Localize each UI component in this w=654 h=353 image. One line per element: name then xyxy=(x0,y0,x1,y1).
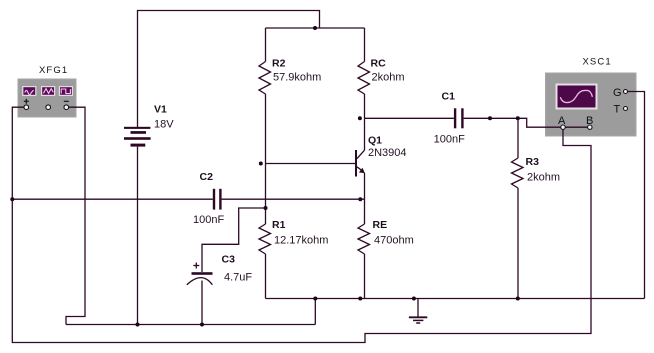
svg-text:B: B xyxy=(586,115,593,127)
node junction dot R3 bottom xyxy=(516,297,520,301)
terminal XFG1 minus xyxy=(64,105,69,110)
svg-text:RE: RE xyxy=(373,219,388,231)
wire scope G to ground bus xyxy=(628,92,645,299)
wire input node to C2 xyxy=(12,198,213,200)
svg-text:57.9kohm: 57.9kohm xyxy=(273,72,321,84)
capacitor C3 polarized xyxy=(187,263,213,285)
wire RC bottom to collector xyxy=(364,94,366,150)
wire C1 to scope A xyxy=(464,118,590,127)
resistor RC xyxy=(358,28,370,94)
terminal XFG1 plus xyxy=(24,105,29,110)
svg-text:A: A xyxy=(558,115,566,127)
svg-text:2kohm: 2kohm xyxy=(372,72,405,84)
svg-text:4.7uF: 4.7uF xyxy=(224,272,252,284)
battery V1 xyxy=(124,127,151,147)
wire jog bus to 0-volt rail xyxy=(314,299,316,325)
wire ground bus y=298.5 xyxy=(266,298,645,300)
wire 0-volt rail y=324.5 xyxy=(66,324,315,326)
resistor R2 xyxy=(259,28,271,94)
resistor RE xyxy=(358,224,370,299)
svg-text:XSC1: XSC1 xyxy=(583,57,612,68)
svg-text:100nF: 100nF xyxy=(193,214,224,226)
svg-text:C3: C3 xyxy=(222,254,236,266)
svg-text:R2: R2 xyxy=(272,58,286,70)
terminal XSC1 A xyxy=(561,125,565,129)
node emitter junction dot xyxy=(358,197,362,201)
wire XFG1 plus to input node xyxy=(12,107,24,199)
node input junction dot xyxy=(10,197,14,201)
wire +rail y=28 R2 to RC xyxy=(266,27,365,29)
wire V1 top to +rail corner xyxy=(138,11,320,128)
svg-text:18V: 18V xyxy=(154,119,174,131)
wire XFG1 minus to 0-volt rail xyxy=(66,107,85,324)
svg-text:2N3904: 2N3904 xyxy=(368,147,407,159)
wire C2 to emitter xyxy=(222,198,365,200)
wire input node to scope B xyxy=(12,129,591,343)
wire V1 bottom xyxy=(137,147,139,325)
terminal XSC1 G xyxy=(624,90,628,94)
wire R2 bottom down to R1 xyxy=(265,94,267,224)
terminal XSC1 B xyxy=(588,125,592,129)
node junction dot ground stem xyxy=(412,297,416,301)
wire collector to C1 xyxy=(365,117,454,119)
capacitor C2 xyxy=(213,189,222,210)
svg-text:2kohm: 2kohm xyxy=(527,172,560,184)
wire base node to C3 xyxy=(202,208,266,272)
svg-text:V1: V1 xyxy=(154,104,167,116)
transistor Q1 xyxy=(355,150,365,177)
node junction dot on +rail xyxy=(313,26,317,30)
svg-text:470ohm: 470ohm xyxy=(374,235,414,247)
instrument XSC1 oscilloscope body xyxy=(546,73,637,136)
node collector junction dot xyxy=(358,116,362,120)
resistor R3 xyxy=(512,118,524,298)
svg-text:C2: C2 xyxy=(200,171,214,183)
svg-text:XFG1: XFG1 xyxy=(39,65,68,76)
node junction dot R3 top xyxy=(516,116,520,120)
node junction dot output wire xyxy=(488,116,492,120)
node C3 tap junction dot xyxy=(264,206,268,210)
node junction dot RE bottom xyxy=(358,297,362,301)
svg-text:R3: R3 xyxy=(526,156,540,168)
svg-text:C1: C1 xyxy=(442,91,456,103)
node junction dot bus-left jog xyxy=(313,297,317,301)
capacitor C1 xyxy=(454,108,464,128)
svg-text:12.17kohm: 12.17kohm xyxy=(274,235,328,247)
svg-text:RC: RC xyxy=(371,58,387,70)
node junction dot V1 bottom xyxy=(136,323,140,327)
svg-text:R1: R1 xyxy=(272,219,286,231)
instrument XFG1 function generator body xyxy=(18,79,76,117)
wire emitter down xyxy=(364,173,366,224)
terminal XFG1 common xyxy=(46,105,51,110)
wire C3 bottom xyxy=(201,281,203,325)
ground xyxy=(409,299,427,324)
svg-text:T: T xyxy=(614,104,621,116)
node junction dot C3 bottom xyxy=(200,323,204,327)
resistor R1 xyxy=(259,224,271,299)
svg-text:Q1: Q1 xyxy=(368,135,382,147)
svg-text:100nF: 100nF xyxy=(434,134,465,146)
node base junction dot xyxy=(259,162,263,166)
svg-text:G: G xyxy=(613,87,622,99)
wire base from bias divider xyxy=(266,163,356,165)
terminal XSC1 T xyxy=(624,107,628,111)
